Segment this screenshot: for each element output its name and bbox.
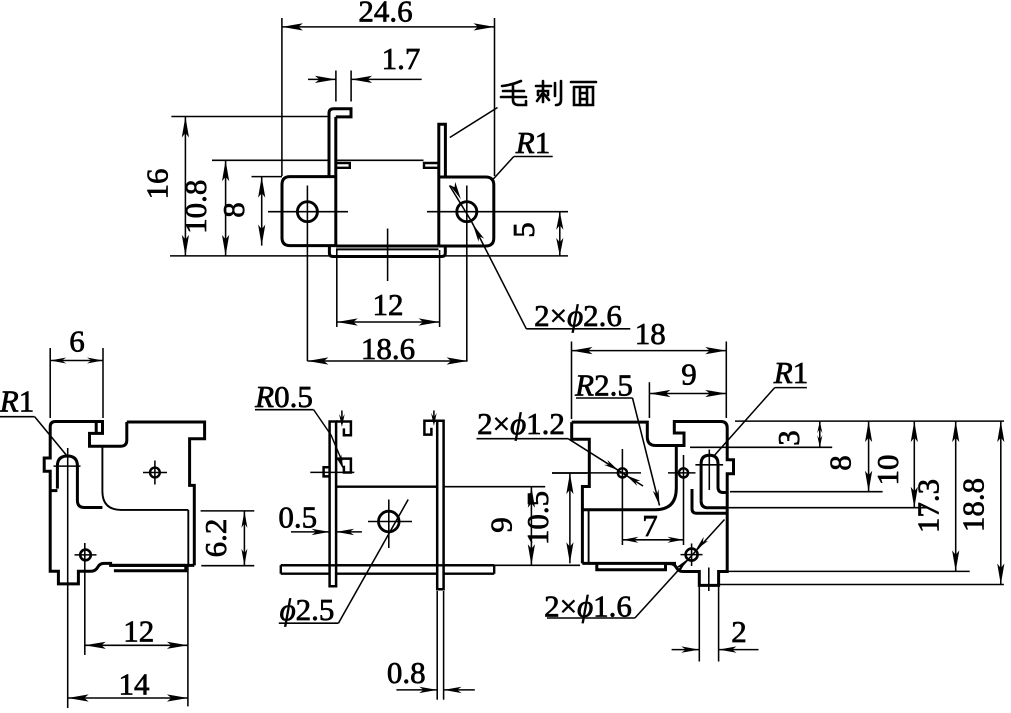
- svg-text:17.3: 17.3: [911, 479, 946, 533]
- svg-text:10.8: 10.8: [178, 180, 213, 234]
- dimension 18.6: [307, 360, 467, 362]
- left view outline lower-left: [44, 422, 186, 584]
- middle view bump centerline: [310, 471, 354, 473]
- dimension 17.3: [955, 421, 957, 571]
- left view arch centerlines: [54, 465, 81, 467]
- top view left tab hook: [329, 109, 351, 177]
- middle view left plate lower hook: [336, 459, 351, 473]
- right view outer outline: [572, 422, 734, 586]
- svg-text:1.7: 1.7: [382, 41, 421, 76]
- top view left slot: [337, 163, 350, 168]
- top view right flange: [439, 177, 494, 246]
- middle view right plate: [437, 421, 443, 590]
- top view body center tick: [387, 229, 389, 282]
- left view small slot divider: [95, 422, 98, 434]
- svg-text:12: 12: [373, 287, 404, 322]
- dimension 6 (left view): [49, 348, 51, 418]
- dimension 8: [252, 176, 283, 178]
- right view web edge and R2.5 corner: [583, 446, 676, 510]
- right view holes phi1.2: [618, 468, 627, 477]
- right view arch (R1 tab): [701, 455, 727, 501]
- svg-text:R1: R1: [773, 355, 808, 390]
- svg-text:8: 8: [823, 455, 858, 471]
- top view right tab: [439, 124, 446, 246]
- right view hole phi1.6: [686, 549, 698, 561]
- top view body bottom edge: [336, 245, 439, 248]
- left hole vertical centerline / 18.6 ext: [306, 186, 308, 362]
- svg-text:24.6: 24.6: [358, 0, 412, 29]
- svg-text:12: 12: [123, 614, 154, 649]
- left view inner corner arc: [102, 446, 188, 510]
- common top extension line: [735, 420, 1004, 422]
- ext line 3: [690, 446, 832, 448]
- left view inner right edge: [187, 510, 189, 565]
- svg-text:8: 8: [216, 202, 251, 218]
- dimension 18.8: [1000, 421, 1002, 584]
- right hole centerline / 5 ext: [427, 211, 568, 213]
- right view arch inner bend top: [701, 501, 727, 508]
- ext line 8: [730, 491, 883, 493]
- left view arch (R1 slot): [57, 456, 102, 508]
- svg-text:2×ϕ2.6: 2×ϕ2.6: [534, 298, 622, 333]
- svg-text:10.5: 10.5: [520, 491, 555, 545]
- svg-text:5: 5: [506, 222, 541, 238]
- left view bottom edge: [111, 564, 195, 567]
- right view foot centerline tick: [708, 568, 710, 592]
- svg-text:R1: R1: [515, 125, 550, 160]
- top view left hole (phi2.6): [297, 202, 317, 222]
- dimension 10.8: [212, 159, 329, 161]
- dimension 9 (right view): [648, 382, 650, 418]
- top view right hole (phi2.6): [457, 202, 477, 222]
- dimension 16: [171, 116, 329, 118]
- left hole horizontal centerline: [268, 211, 348, 213]
- left view outline right side: [127, 422, 205, 565]
- middle view bottom flange: [281, 565, 494, 573]
- dimension 3: [819, 421, 821, 447]
- dimension 6.2: [201, 510, 255, 512]
- svg-text:2: 2: [731, 614, 747, 649]
- dimension 9 (middle view): [444, 486, 546, 488]
- svg-text:16: 16: [140, 169, 175, 200]
- svg-text:18.6: 18.6: [361, 331, 415, 366]
- left view hole phi1.6: [80, 550, 91, 561]
- svg-text:9: 9: [484, 517, 519, 533]
- dimension 10: [913, 421, 915, 508]
- svg-text:18: 18: [635, 316, 666, 351]
- svg-text:ϕ2.5: ϕ2.5: [280, 592, 335, 627]
- svg-text:2×ϕ1.2: 2×ϕ1.2: [477, 406, 565, 441]
- top view body top edge: [337, 159, 424, 161]
- right view bottom edge: [582, 562, 676, 565]
- right view arch inner bend bottom: [692, 489, 727, 513]
- dimension 12 (left view): [84, 543, 86, 655]
- dimension 18: [571, 342, 573, 420]
- dimension 5: [445, 255, 568, 257]
- middle view web top edge: [336, 486, 437, 488]
- dimension 10.5: [552, 472, 587, 474]
- svg-text:6.2: 6.2: [198, 519, 233, 558]
- middle view right plate hook: [424, 421, 437, 435]
- svg-text:6: 6: [69, 324, 85, 359]
- svg-text:10: 10: [870, 455, 905, 486]
- left view top notch: [56, 422, 127, 447]
- left view arch ledge: [50, 489, 57, 492]
- dimension 8: [868, 421, 870, 492]
- middle view flange top line over plates: [281, 564, 494, 566]
- dimension 0.8: [436, 591, 438, 700]
- left view hole phi1.2: [150, 468, 160, 478]
- svg-text:R0.5: R0.5: [254, 379, 313, 414]
- svg-text:R1: R1: [0, 384, 34, 419]
- right view left edge steps: [572, 422, 590, 563]
- dimension 12 (top view): [336, 250, 338, 327]
- right view inner left edge: [588, 510, 590, 564]
- top view right slot: [424, 163, 438, 168]
- dimension 1.7: [335, 71, 337, 102]
- hole A vertical centerline / 7 ext: [621, 449, 623, 545]
- svg-text:7: 7: [642, 508, 658, 543]
- middle view hole phi2.5: [379, 511, 400, 532]
- ext line 10: [719, 507, 928, 509]
- ext line 17.3: [727, 570, 970, 572]
- hole B vertical centerline / 7 ext: [683, 455, 685, 545]
- right view arch centerlines: [695, 464, 723, 466]
- top view base lip: [329, 246, 445, 257]
- dimension 2: [698, 585, 700, 661]
- dimension 14 (left view): [67, 448, 69, 708]
- hook arrows: [341, 411, 343, 425]
- middle view left plate: [330, 422, 337, 587]
- middle view left plate top hook: [336, 422, 351, 436]
- middle view left bump: [324, 467, 330, 476]
- top view left flange: [282, 177, 336, 246]
- top view base inner edge: [336, 248, 439, 250]
- left view slot right edge: [101, 422, 104, 434]
- svg-text:0.8: 0.8: [387, 655, 426, 690]
- svg-text:0.5: 0.5: [278, 500, 317, 535]
- svg-text:18.8: 18.8: [956, 478, 991, 532]
- dimension 24.6: [281, 18, 283, 176]
- right hole vertical centerline / 18.6 ext: [466, 186, 468, 362]
- ext line 18.8: [719, 584, 1004, 586]
- svg-text:3: 3: [771, 430, 806, 446]
- left view bottom lip: [114, 565, 186, 570]
- svg-text:9: 9: [681, 357, 697, 392]
- dimension 7: [622, 539, 683, 541]
- label maocimian glyphs: [501, 81, 596, 105]
- dimension 0.5: [291, 531, 330, 533]
- top view body left edge: [334, 117, 337, 246]
- svg-text:14: 14: [119, 667, 151, 702]
- label maocimian (burr face) leader: [450, 108, 498, 138]
